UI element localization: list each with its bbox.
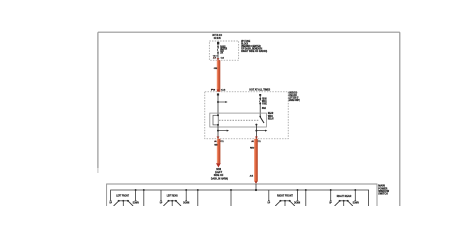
svg-text:RIGHT SIDE OF RADIO): RIGHT SIDE OF RADIO) — [241, 50, 267, 53]
fuse value label — [220, 46, 227, 55]
relay mechanical link (dashed) — [219, 119, 259, 121]
splice location text — [211, 168, 228, 180]
net label HOT IN ACC OR RUN — [212, 33, 222, 40]
svg-text:RELAY: RELAY — [268, 118, 274, 121]
svg-text:15A: 15A — [220, 52, 223, 55]
wire ORN segment (I/P fuse block to underhood fuse block) — [217, 60, 221, 92]
left rear switch — [160, 189, 199, 206]
svg-text:LEFT FRONT: LEFT FRONT — [116, 194, 129, 198]
connector arrow stub (left) — [214, 55, 218, 57]
svg-text:UP: UP — [329, 201, 332, 205]
rocker bar — [118, 200, 129, 202]
output wire to left rear motor — [197, 189, 199, 191]
blades and motor leads — [335, 201, 340, 206]
terminal pin left wire — [217, 93, 219, 95]
connector C2 exit of I/P fuse block — [217, 58, 220, 60]
junction below coil with branch arrow — [217, 130, 219, 132]
I/P fuse block dashed box — [209, 41, 238, 60]
relay coil — [213, 115, 218, 125]
connector arrows at underhood fuse block bottom — [217, 137, 220, 139]
frame left border — [97, 32, 99, 168]
UP contact stub — [330, 189, 332, 191]
wire RED segment (relay to master switch, right) — [254, 139, 258, 182]
connector arrow into underhood fuse block — [217, 90, 220, 92]
frame top border — [98, 31, 400, 33]
coil to box bottom wire — [217, 125, 219, 139]
junction: red feed to bus — [255, 184, 257, 190]
DOWN contact stub — [354, 189, 356, 191]
UP contact stub — [110, 199, 112, 202]
right front switch — [268, 189, 307, 206]
svg-text:SWITCH: SWITCH — [378, 192, 388, 196]
svg-text:OR RUN: OR RUN — [214, 36, 221, 40]
left front switch — [109, 189, 144, 206]
fuse rear window 30A — [259, 98, 261, 100]
output wire to right front motor — [305, 189, 307, 191]
svg-text:REAR: REAR — [262, 98, 267, 101]
svg-text:DOWN: DOWN — [353, 201, 359, 205]
rocker bar — [339, 200, 349, 202]
fuse value label — [262, 98, 267, 110]
off-page arrow at splice S306 — [216, 163, 221, 167]
svg-text:WDO: WDO — [268, 116, 273, 118]
relay output wire — [255, 125, 257, 139]
svg-text:REAR: REAR — [268, 112, 274, 115]
switch name text — [378, 184, 389, 196]
wire from pin to fuse — [217, 44, 219, 47]
svg-text:RED: RED — [250, 147, 255, 149]
relay name label — [268, 112, 274, 121]
wire down to fuse — [259, 96, 261, 99]
wire fuse to relay contact — [259, 104, 261, 117]
terminal pin right wire (B+) — [259, 94, 261, 96]
underhood fuse block dashed box — [205, 92, 288, 139]
svg-text:DOWN: DOWN — [183, 201, 189, 205]
blades and motor leads — [114, 201, 119, 206]
svg-text:FUSE: FUSE — [262, 104, 267, 106]
svg-text:30A: 30A — [262, 107, 267, 110]
relay switch blade — [260, 117, 264, 123]
output wire junction (tailgate feed) — [230, 189, 232, 191]
svg-text:UP: UP — [268, 201, 271, 205]
wire down to relay coil — [217, 96, 219, 116]
junction below relay contact with branch arrow — [255, 130, 257, 132]
svg-text:RIGHT FRONT: RIGHT FRONT — [277, 194, 293, 198]
svg-text:UP: UP — [160, 201, 163, 205]
DOWN contact stub — [185, 189, 187, 191]
blades and motor leads — [275, 201, 280, 206]
frame right border — [399, 32, 401, 206]
rocker bar — [279, 200, 290, 202]
svg-text:ORN: ORN — [214, 68, 218, 70]
relay contact — [259, 116, 261, 118]
svg-text:DOWN: DOWN — [294, 201, 300, 205]
rear window relay box — [210, 113, 267, 127]
UP contact stub — [268, 190, 270, 200]
rocker bar — [168, 200, 177, 202]
svg-text:LEFT REAR: LEFT REAR — [167, 194, 178, 198]
blades and motor leads — [163, 201, 168, 206]
internal B+ bus wire — [111, 190, 369, 206]
terminal pin at I/P fuse block top — [217, 42, 219, 45]
underhood fuse block name text — [289, 93, 300, 102]
svg-text:DASH, IN HARN): DASH, IN HARN) — [211, 177, 228, 180]
connector arrow into master switch — [255, 181, 258, 184]
svg-text:HOT AT ALL TIMES: HOT AT ALL TIMES — [249, 88, 270, 91]
svg-text:RED: RED — [214, 144, 217, 146]
DOWN contact stub — [297, 189, 299, 191]
DOWN contact stub — [135, 189, 137, 191]
svg-text:UP: UP — [109, 201, 112, 205]
wire RED segment (to splice, left) — [217, 139, 221, 164]
main power window switch box — [107, 184, 377, 206]
svg-text:DOWN: DOWN — [133, 201, 139, 205]
right rear switch — [329, 189, 359, 206]
junction with branch arrow — [217, 101, 219, 103]
relay output terminal — [255, 124, 257, 126]
UP contact stub — [160, 190, 162, 200]
svg-text:RIGHT REAR: RIGHT REAR — [337, 194, 352, 198]
I/P fuse block name text — [241, 40, 267, 53]
wire below fuse — [217, 53, 219, 60]
svg-text:ENGINE COMPT): ENGINE COMPT) — [289, 100, 300, 102]
fuse (radio fuse 15A) — [217, 46, 219, 48]
output wire to left front motor — [143, 189, 145, 191]
